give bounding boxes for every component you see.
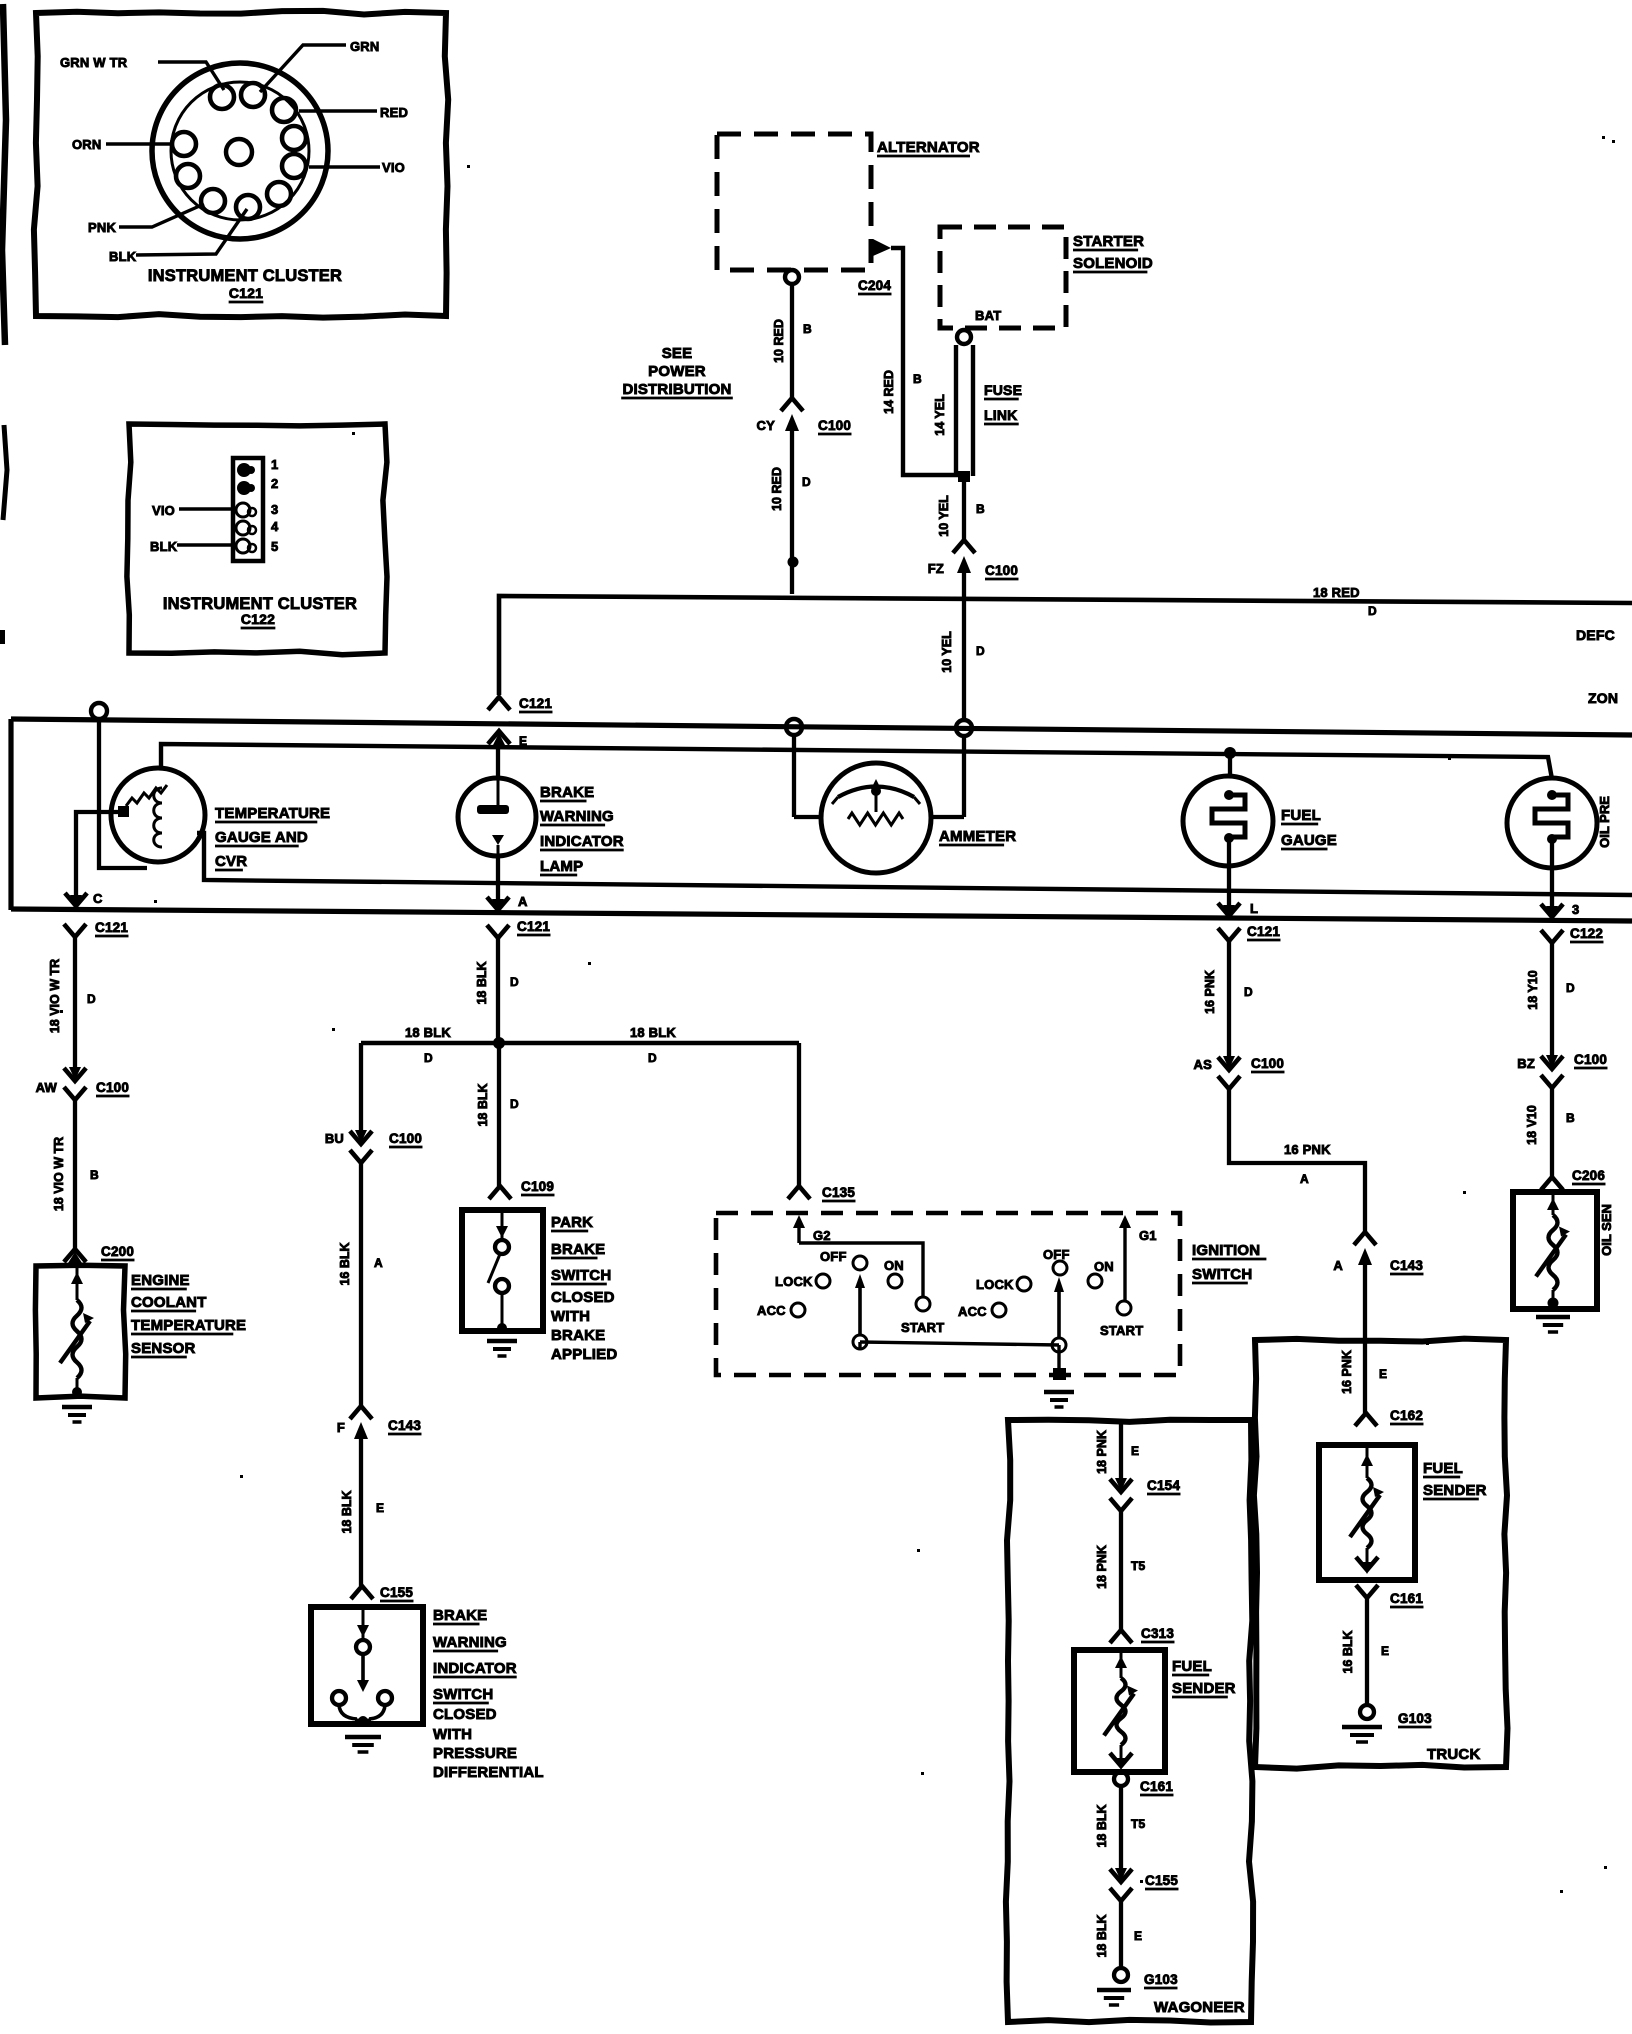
svg-text:C143: C143	[388, 1418, 421, 1433]
svg-text:T5: T5	[1131, 1817, 1146, 1831]
svg-text:C162: C162	[1390, 1408, 1423, 1423]
svg-text:WARNING: WARNING	[540, 808, 614, 825]
svg-text:18 BLK: 18 BLK	[1095, 1804, 1109, 1847]
svg-text:SENDER: SENDER	[1423, 1482, 1487, 1499]
svg-text:18 VIO W TR: 18 VIO W TR	[48, 959, 62, 1033]
svg-text:18 PNK: 18 PNK	[1095, 1430, 1109, 1474]
svg-text:BAT: BAT	[975, 308, 1001, 323]
svg-text:C100: C100	[1574, 1052, 1607, 1067]
svg-text:START: START	[1100, 1323, 1143, 1338]
svg-text:INDICATOR: INDICATOR	[540, 833, 624, 850]
svg-text:C161: C161	[1140, 1779, 1173, 1794]
svg-text:RED: RED	[380, 105, 408, 120]
svg-text:D: D	[1368, 604, 1377, 618]
svg-text:C100: C100	[985, 563, 1018, 578]
svg-text:OIL PRE: OIL PRE	[1597, 796, 1612, 848]
svg-text:16 PNK: 16 PNK	[1340, 1350, 1354, 1394]
svg-text:18 RED: 18 RED	[1313, 585, 1360, 600]
svg-text:BZ: BZ	[1517, 1056, 1535, 1071]
svg-text:G1: G1	[1139, 1228, 1157, 1243]
svg-text:5: 5	[271, 539, 278, 554]
svg-text:BRAKE: BRAKE	[433, 1607, 487, 1624]
svg-text:WITH: WITH	[433, 1726, 472, 1743]
svg-text:GRN: GRN	[350, 39, 380, 54]
svg-text:BLK: BLK	[109, 249, 137, 264]
svg-text:C121: C121	[517, 919, 550, 934]
svg-text:PRESSURE: PRESSURE	[433, 1745, 517, 1762]
svg-text:C121: C121	[229, 285, 263, 301]
svg-text:GAUGE: GAUGE	[1281, 832, 1337, 849]
svg-text:TEMPERATURE: TEMPERATURE	[215, 805, 330, 822]
svg-text:C122: C122	[241, 611, 275, 627]
svg-text:4: 4	[271, 519, 279, 534]
svg-text:18 PNK: 18 PNK	[1095, 1545, 1109, 1589]
svg-text:D: D	[510, 975, 519, 989]
svg-text:ALTERNATOR: ALTERNATOR	[877, 139, 980, 156]
svg-text:D: D	[1566, 981, 1575, 995]
svg-text:C200: C200	[101, 1244, 134, 1259]
svg-text:B: B	[1566, 1111, 1575, 1125]
svg-text:D: D	[510, 1097, 519, 1111]
svg-text:D: D	[1244, 985, 1253, 999]
svg-text:B: B	[90, 1168, 99, 1182]
svg-text:SWITCH: SWITCH	[551, 1267, 611, 1284]
svg-text:18 VIO W TR: 18 VIO W TR	[52, 1137, 66, 1211]
svg-text:FUSE: FUSE	[984, 382, 1022, 398]
svg-text:IGNITION: IGNITION	[1192, 1242, 1260, 1259]
svg-text:14 YEL: 14 YEL	[933, 394, 947, 436]
svg-text:LAMP: LAMP	[540, 858, 583, 875]
svg-text:COOLANT: COOLANT	[131, 1294, 207, 1311]
svg-text:FZ: FZ	[928, 561, 944, 576]
svg-text:E: E	[376, 1501, 384, 1515]
svg-text:FUEL: FUEL	[1281, 807, 1321, 824]
svg-text:E: E	[1134, 1929, 1142, 1943]
svg-text:18 BLK: 18 BLK	[476, 1083, 490, 1126]
svg-text:B: B	[976, 502, 985, 516]
svg-text:18 BLK: 18 BLK	[630, 1025, 676, 1040]
svg-text:SENDER: SENDER	[1172, 1680, 1236, 1697]
svg-text:C121: C121	[1247, 924, 1280, 939]
svg-text:BRAKE: BRAKE	[551, 1241, 605, 1258]
svg-text:OIL SEN: OIL SEN	[1599, 1204, 1614, 1256]
svg-text:14 RED: 14 RED	[882, 370, 896, 414]
svg-text:AS: AS	[1194, 1057, 1213, 1072]
svg-text:SOLENOID: SOLENOID	[1073, 255, 1153, 272]
svg-text:DIFFERENTIAL: DIFFERENTIAL	[433, 1764, 544, 1781]
svg-text:16 BLK: 16 BLK	[338, 1242, 352, 1285]
svg-text:E: E	[1131, 1444, 1139, 1458]
svg-text:GAUGE AND: GAUGE AND	[215, 829, 308, 846]
svg-text:FUEL: FUEL	[1423, 1460, 1463, 1477]
svg-text:CY: CY	[757, 418, 776, 433]
svg-text:10 RED: 10 RED	[772, 319, 786, 363]
svg-text:INSTRUMENT CLUSTER: INSTRUMENT CLUSTER	[148, 267, 342, 285]
svg-text:CLOSED: CLOSED	[551, 1289, 615, 1306]
svg-text:ON: ON	[1094, 1259, 1114, 1274]
svg-text:G103: G103	[1144, 1972, 1178, 1987]
svg-text:SENSOR: SENSOR	[131, 1340, 196, 1357]
svg-text:C100: C100	[96, 1080, 129, 1095]
svg-text:C100: C100	[1251, 1056, 1284, 1071]
svg-text:PARK: PARK	[551, 1214, 593, 1231]
svg-text:ZON: ZON	[1588, 690, 1618, 706]
svg-text:18 BLK: 18 BLK	[1095, 1914, 1109, 1957]
svg-text:D: D	[976, 644, 985, 658]
svg-text:C155: C155	[380, 1585, 413, 1600]
svg-text:STARTER: STARTER	[1073, 233, 1144, 250]
svg-text:D: D	[424, 1051, 433, 1065]
svg-text:VIO: VIO	[152, 503, 175, 518]
svg-text:C135: C135	[822, 1185, 855, 1200]
svg-text:AW: AW	[36, 1080, 58, 1095]
svg-text:C: C	[93, 891, 103, 906]
svg-text:C121: C121	[95, 920, 128, 935]
svg-text:LOCK: LOCK	[976, 1277, 1014, 1292]
svg-text:1: 1	[271, 457, 278, 472]
svg-text:L: L	[1250, 901, 1258, 916]
svg-text:WITH: WITH	[551, 1308, 590, 1325]
svg-text:10 YEL: 10 YEL	[940, 631, 954, 673]
svg-text:10 YEL: 10 YEL	[937, 495, 951, 537]
svg-text:DEFC: DEFC	[1576, 627, 1615, 643]
svg-text:TRUCK: TRUCK	[1427, 1746, 1481, 1763]
svg-text:D: D	[802, 475, 811, 489]
svg-text:APPLIED: APPLIED	[551, 1346, 617, 1363]
svg-text:ORN: ORN	[72, 137, 102, 152]
svg-text:C121: C121	[519, 696, 552, 711]
svg-text:10 RED: 10 RED	[770, 467, 784, 511]
svg-text:C143: C143	[1390, 1258, 1423, 1273]
svg-text:BU: BU	[325, 1131, 344, 1146]
svg-text:G2: G2	[813, 1228, 831, 1243]
svg-text:18 Y10: 18 Y10	[1526, 970, 1540, 1009]
svg-text:C155: C155	[1145, 1873, 1178, 1888]
svg-text:18 BLK: 18 BLK	[340, 1490, 354, 1533]
svg-text:CLOSED: CLOSED	[433, 1706, 497, 1723]
svg-text:SWITCH: SWITCH	[433, 1686, 493, 1703]
svg-text:16 PNK: 16 PNK	[1284, 1142, 1331, 1157]
svg-text:E: E	[1381, 1644, 1389, 1658]
svg-text:TEMPERATURE: TEMPERATURE	[131, 1317, 246, 1334]
svg-text:18 V10: 18 V10	[1525, 1105, 1539, 1145]
svg-text:BLK: BLK	[150, 539, 178, 554]
svg-text:OFF: OFF	[820, 1249, 847, 1264]
svg-text:BRAKE: BRAKE	[540, 784, 594, 801]
svg-text:WAGONEER: WAGONEER	[1154, 1999, 1245, 2016]
svg-text:18 BLK: 18 BLK	[475, 961, 489, 1004]
svg-text:CVR: CVR	[215, 853, 247, 870]
svg-text:LINK: LINK	[984, 407, 1017, 423]
svg-text:VIO: VIO	[382, 160, 405, 175]
svg-text:DISTRIBUTION: DISTRIBUTION	[622, 381, 731, 398]
svg-text:C122: C122	[1570, 926, 1603, 941]
svg-text:C100: C100	[389, 1131, 422, 1146]
svg-text:START: START	[901, 1320, 944, 1335]
svg-text:3: 3	[1572, 902, 1579, 917]
svg-text:16 BLK: 16 BLK	[1341, 1630, 1355, 1673]
svg-text:C100: C100	[818, 418, 851, 433]
svg-text:ACC: ACC	[757, 1303, 786, 1318]
svg-text:C204: C204	[858, 278, 891, 293]
svg-text:E: E	[1379, 1367, 1387, 1381]
svg-text:B: B	[913, 372, 922, 386]
svg-text:ACC: ACC	[958, 1304, 987, 1319]
svg-text:INDICATOR: INDICATOR	[433, 1660, 517, 1677]
svg-text:ON: ON	[884, 1258, 904, 1273]
svg-text:2: 2	[271, 476, 278, 491]
svg-text:LOCK: LOCK	[775, 1274, 813, 1289]
svg-text:C206: C206	[1572, 1168, 1605, 1183]
svg-text:16 PNK: 16 PNK	[1203, 970, 1217, 1014]
svg-text:F: F	[337, 1420, 345, 1435]
svg-text:18 BLK: 18 BLK	[405, 1025, 451, 1040]
svg-text:A: A	[1333, 1258, 1343, 1273]
svg-text:T5: T5	[1131, 1559, 1146, 1573]
svg-text:G103: G103	[1398, 1711, 1432, 1726]
svg-text:3: 3	[271, 502, 278, 517]
svg-text:C109: C109	[521, 1179, 554, 1194]
svg-text:C161: C161	[1390, 1591, 1423, 1606]
svg-text:A: A	[374, 1256, 383, 1270]
svg-text:WARNING: WARNING	[433, 1634, 507, 1651]
svg-text:C313: C313	[1141, 1626, 1174, 1641]
svg-text:D: D	[648, 1051, 657, 1065]
svg-text:BRAKE: BRAKE	[551, 1327, 605, 1344]
svg-text:POWER: POWER	[648, 363, 706, 380]
svg-text:PNK: PNK	[88, 220, 116, 235]
svg-text:FUEL: FUEL	[1172, 1658, 1212, 1675]
svg-text:AMMETER: AMMETER	[939, 828, 1016, 845]
svg-text:SEE: SEE	[662, 345, 693, 362]
svg-text:D: D	[87, 992, 96, 1006]
svg-text:A: A	[1300, 1172, 1309, 1186]
svg-text:GRN W TR: GRN W TR	[60, 55, 128, 70]
svg-text:SWITCH: SWITCH	[1192, 1266, 1252, 1283]
svg-text:C154: C154	[1147, 1478, 1180, 1493]
svg-text:ENGINE: ENGINE	[131, 1272, 190, 1289]
svg-text:A: A	[518, 894, 528, 909]
svg-text:B: B	[803, 322, 812, 336]
svg-text:OFF: OFF	[1043, 1247, 1070, 1262]
